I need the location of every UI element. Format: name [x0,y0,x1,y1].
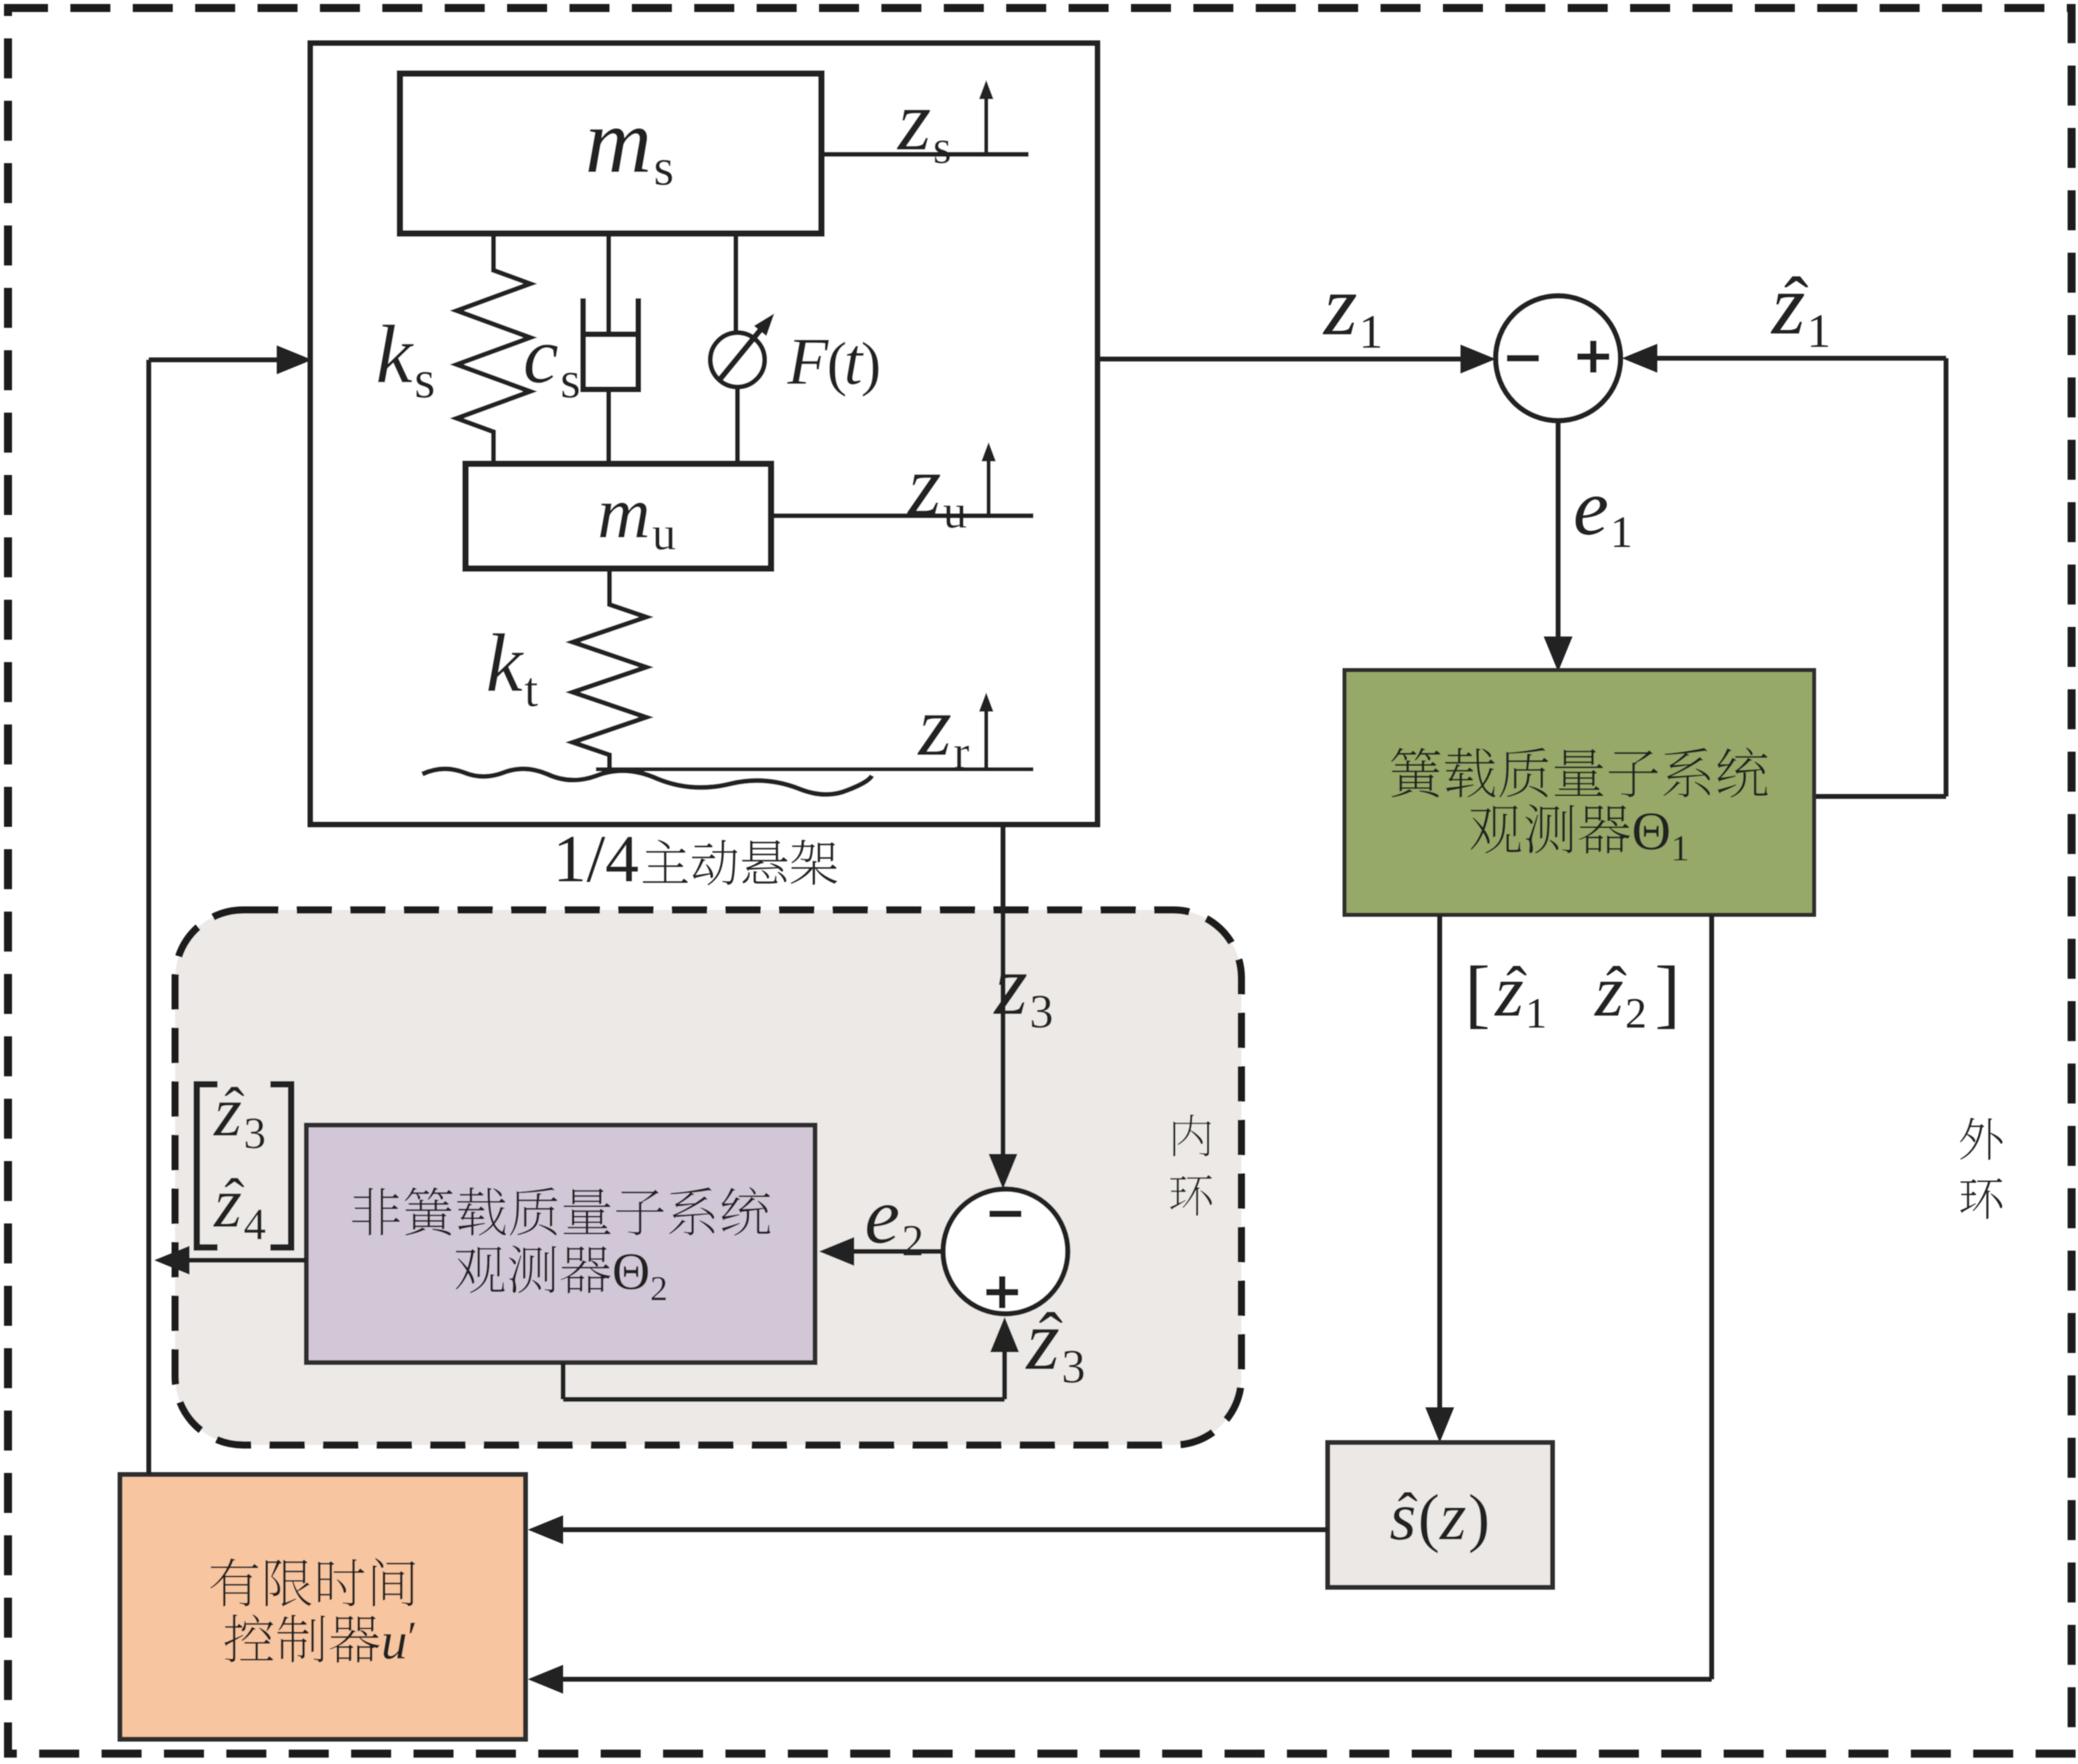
observer block Theta2 [306,1125,815,1363]
label m_s [588,128,672,185]
label F(t) [787,340,878,397]
wire zhat12 to controller [528,915,1712,1694]
wire e1 [1544,421,1572,672]
controller block u' [120,1475,525,1739]
block shat(z) [1328,1443,1553,1587]
label m_u [600,503,675,550]
label shat(z) [1390,1492,1487,1553]
wire z_u [771,513,1033,518]
arrow z_s up [979,80,993,154]
wire controller feedback up-left [149,345,312,1475]
label e2 [867,1205,921,1255]
label 簧载质量子系统 [1391,748,1768,798]
label z3 [993,974,1052,1028]
label c_s [525,345,579,398]
label [zhat1 zhat2] [1470,965,1674,1028]
wire e2 [819,1237,943,1266]
wire zhat1 feedback [1622,344,1946,796]
damper c_s [583,233,638,464]
mass block m_s [400,74,821,233]
label zhat1 [1771,277,1828,347]
label z_u [907,474,966,528]
label 观测器Theta1 [1471,804,1688,860]
label [zhat3; zhat4] bracket [197,1084,291,1247]
label k_s [378,325,434,398]
ground profile [422,768,1033,794]
observer block Theta1 [1345,670,1814,915]
label z1 [1323,294,1381,347]
label z_s [897,110,949,163]
mass block m_u [466,464,771,569]
label 控制器u' [224,1614,414,1662]
arrow z_r up [979,692,993,768]
label 非簧载质量子系统 [352,1187,770,1235]
label 内环 [1170,1115,1213,1216]
arrow z_u up [981,442,996,516]
label 外环 [1960,1118,2002,1219]
label 有限时间 [210,1558,415,1606]
quarter-car plant box [310,43,1097,824]
label 观测器Theta2 [456,1246,666,1300]
sum junction 1 [1496,296,1620,421]
label e1 [1576,497,1630,547]
spring k_t [573,569,646,769]
sum junction 2 [943,1189,1068,1314]
label zhat3 [1025,1312,1084,1383]
label z_r [917,715,969,768]
wire z3 [989,824,1017,1189]
wire zhat12 to shat [1425,915,1454,1443]
label k_t [488,633,537,707]
wire zhat3 feedback [563,1317,1019,1399]
wire z1 [1097,345,1496,373]
inner loop shaded region 内环 [175,910,1241,1445]
wire z_s [821,152,1029,157]
actuator F(t) [710,233,774,464]
caption 1/4主动悬架 [559,837,837,886]
spring k_s [457,233,530,464]
wire shat to controller [528,1515,1328,1544]
wire zhat34 out [154,1246,306,1275]
